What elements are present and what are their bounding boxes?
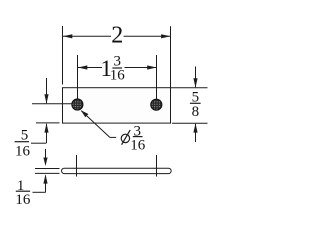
hole callout text 3/16 [130, 123, 146, 153]
wire: extension line right of dim 2 [170, 26, 172, 87]
arrowhead dim 1/16 bottom (points up) [43, 174, 47, 183]
arrowhead dim 5/8 bottom (points up) [193, 123, 197, 132]
dimension stem 5/16 lower [46, 124, 48, 144]
hole H2 right (section-filled) [151, 99, 162, 110]
dimension line 1-3/16 (right segment) [125, 67, 157, 69]
wire: hole centerline extending left [32, 103, 72, 105]
dimension stem 5/16 upper [46, 78, 48, 103]
svg-text:16: 16 [15, 143, 31, 159]
diameter symbol of hole callout [121, 130, 130, 145]
dimension stem 5/8 lower [195, 124, 197, 142]
wire: centerline tick right hole side view [156, 155, 158, 177]
wire: extension line bottom-left for dim 5/16 [36, 122, 60, 124]
svg-text:2: 2 [111, 23, 123, 49]
dimension stem 1/16 upper [45, 149, 47, 162]
arrowhead dim 1-3/16 left [78, 65, 87, 69]
dimension line 1-3/16 (left segment) [78, 67, 102, 69]
leader line of hole diameter callout (diagonal) [81, 111, 110, 138]
svg-text:8: 8 [192, 104, 200, 120]
hole H1 left (section-filled) [72, 99, 83, 110]
side view bar outline [62, 168, 172, 173]
wire: extension line bottom for dim 5/8 [172, 122, 208, 124]
dimension text 5/8 [190, 89, 201, 120]
arrowhead dim 5/16 top (points down) [44, 94, 48, 103]
arrowhead dim 1-3/16 right [147, 65, 156, 69]
leader from 1/16 text [33, 191, 46, 193]
dimension text 1/16 [15, 178, 31, 208]
arrowhead dim 2 right [161, 34, 170, 38]
plate front view outline [63, 88, 171, 123]
wire: extension line left of dim 2 [62, 26, 64, 85]
wire: extension line through right hole [156, 55, 158, 107]
arrowhead diameter leader (points up-left at hole) [81, 110, 89, 117]
dimension stem 5/8 upper [195, 67, 197, 88]
dimension text 5/16 [15, 128, 31, 160]
arrowhead dim 1/16 top (points down) [43, 158, 47, 167]
wire: extension line bottom for dim 1/16 [35, 172, 60, 174]
leader line of hole diameter callout (horizontal tail) [110, 136, 116, 138]
dimension stem 1/16 lower [45, 176, 47, 193]
leader from 5/16 text [31, 142, 46, 144]
svg-text:16: 16 [110, 67, 126, 83]
svg-text:16: 16 [130, 137, 146, 153]
wire: extension line top for dim 1/16 [35, 168, 60, 170]
dimension text 1 3/16 [100, 54, 125, 84]
arrowhead dim 5/16 bottom (points up) [44, 123, 48, 132]
wire: centerline tick left hole side view [76, 155, 78, 177]
svg-text:16: 16 [15, 192, 31, 208]
dimension line 2 (right segment) [124, 35, 171, 37]
wire: extension line top for dim 5/8 [171, 87, 208, 89]
arrowhead dim 5/8 top (points down) [193, 78, 197, 87]
dimension line 2 (left segment) [63, 35, 111, 37]
wire: extension line through left hole [77, 55, 79, 107]
arrowhead dim 2 left [63, 34, 72, 38]
